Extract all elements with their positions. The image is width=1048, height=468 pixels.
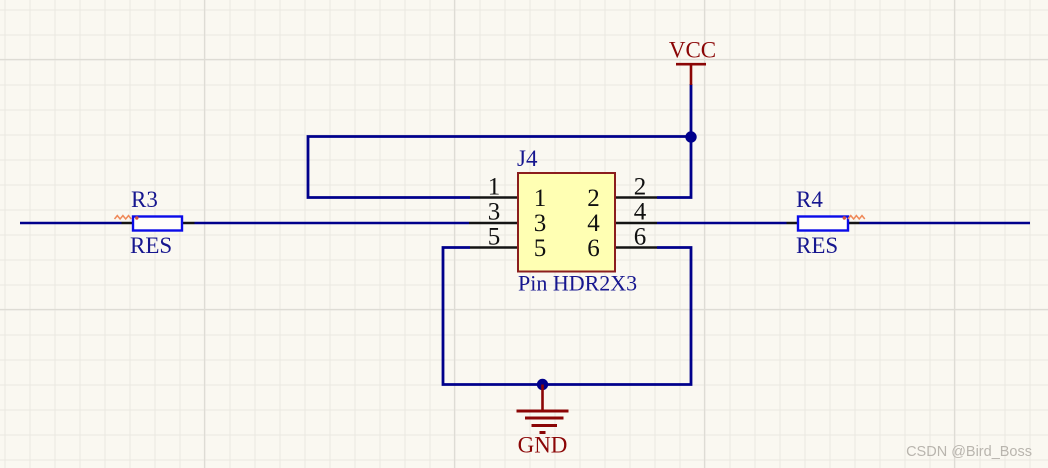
wire: R4 to right edge [860, 222, 1031, 225]
net label VCC [669, 38, 716, 63]
svg-text:5: 5 [488, 224, 501, 251]
watermark CSDN @Bird_Boss [906, 444, 1032, 460]
svg-text:1: 1 [534, 185, 547, 212]
pin name 4 (inside) [587, 210, 600, 237]
value label RES (R4) [796, 233, 838, 258]
designator R4 [796, 187, 823, 212]
svg-text:3: 3 [488, 199, 501, 226]
designator R3 [131, 187, 158, 212]
wire: pin 2 up to VCC rail [657, 84, 691, 198]
connector left pin stubs (pins 1,3,5) [469, 198, 517, 248]
pin name 5 (inside) [534, 235, 547, 262]
svg-text:5: 5 [534, 235, 547, 262]
svg-text:RES: RES [130, 233, 172, 258]
pin name 1 (inside) [534, 185, 547, 212]
pin number 6 (outside) [634, 224, 647, 251]
pin number 1 (outside) [488, 174, 501, 201]
connector right pin stubs (pins 2,4,6) [616, 198, 657, 248]
pin number 2 (outside) [634, 174, 647, 201]
no-ERC squiggle at R4 right pin [848, 216, 865, 219]
wire: R3 to pin 3 [195, 222, 470, 225]
net label GND [518, 433, 568, 458]
svg-text:Pin HDR2X3: Pin HDR2X3 [518, 271, 637, 296]
svg-text:4: 4 [634, 199, 647, 226]
no-ERC squiggle at R3 left pin [115, 216, 132, 219]
svg-text:RES: RES [796, 233, 838, 258]
pin hotspot dot R4 [843, 216, 846, 219]
pin name 2 (inside) [587, 185, 600, 212]
wire: pin 4 to R4 [657, 222, 787, 225]
svg-text:VCC: VCC [669, 38, 716, 63]
svg-text:R3: R3 [131, 187, 158, 212]
pin hotspot dot R3 [135, 216, 138, 219]
svg-text:CSDN @Bird_Boss: CSDN @Bird_Boss [906, 444, 1032, 460]
svg-text:R4: R4 [796, 187, 823, 212]
connector J4 body [518, 173, 615, 272]
svg-text:6: 6 [634, 224, 647, 251]
designator J4 [517, 146, 538, 171]
svg-text:4: 4 [587, 210, 600, 237]
svg-text:2: 2 [634, 174, 647, 201]
pin number 3 (outside) [488, 199, 501, 226]
resistor R4 body [798, 217, 848, 231]
pin name 3 (inside) [534, 210, 547, 237]
svg-text:2: 2 [587, 185, 600, 212]
power symbol VCC [676, 64, 706, 85]
pin number 4 (outside) [634, 199, 647, 226]
svg-text:3: 3 [534, 210, 547, 237]
wire: pin 1 loop up to top rail [308, 137, 691, 198]
pin number 5 (outside) [488, 224, 501, 251]
resistor R3 pin stubs [122, 222, 195, 224]
junction at VCC rail [685, 131, 696, 142]
wire: left net into R3 [20, 222, 122, 225]
pin name 6 (inside) [587, 235, 600, 262]
svg-text:6: 6 [587, 235, 600, 262]
value label RES (R3) [130, 233, 172, 258]
svg-text:GND: GND [518, 433, 568, 458]
svg-text:1: 1 [488, 174, 501, 201]
resistor R3 body [133, 217, 182, 231]
svg-text:J4: J4 [517, 146, 538, 171]
wire: pin 5 to ground loop [443, 248, 691, 385]
junction at GND tap [537, 379, 548, 390]
ground symbol GND [517, 385, 569, 433]
comment label Pin HDR2X3 [518, 271, 637, 296]
resistor R4 pin stubs [787, 222, 860, 224]
